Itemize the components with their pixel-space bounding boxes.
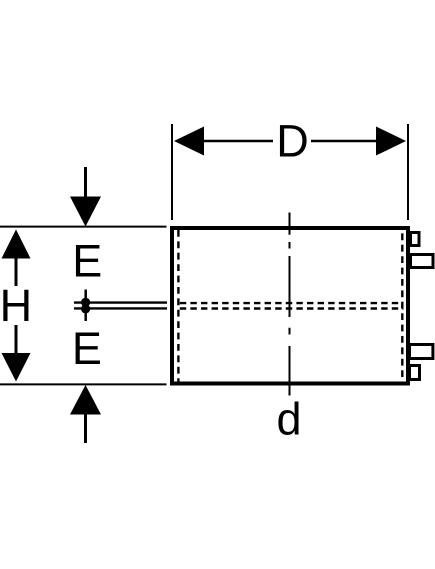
svg-text:E: E <box>72 236 102 287</box>
svg-text:E: E <box>72 323 102 374</box>
svg-text:D: D <box>276 116 309 167</box>
svg-text:d: d <box>276 393 301 444</box>
svg-text:H: H <box>0 280 32 331</box>
